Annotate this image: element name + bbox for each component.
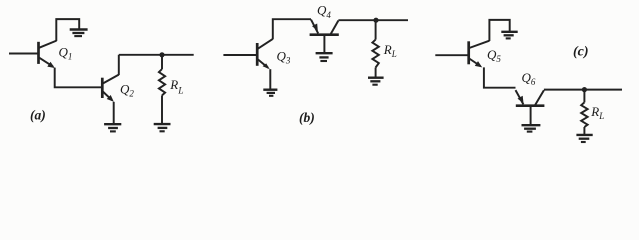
wire: Q3 emitter down to ground [269, 69, 271, 89]
transistor Q1 [39, 41, 57, 68]
svg-text:Q4: Q4 [317, 3, 331, 20]
wire: Q4 base down to ground [323, 35, 325, 52]
svg-text:Q2: Q2 [120, 82, 134, 99]
wire: Q5 collector up and over to ground [489, 20, 509, 41]
node: output junction (a) [159, 52, 164, 57]
svg-text:(a): (a) [30, 108, 46, 123]
svg-text:RL: RL [383, 42, 397, 59]
wire: Q2 emitter down to ground [113, 102, 115, 124]
ground (below Q2, circuit a) [104, 124, 121, 131]
wire: Q1 emitter down and right to Q2 base [55, 68, 102, 88]
wire: node down to resistor (c) [583, 90, 585, 103]
svg-text:Q1: Q1 [59, 45, 73, 62]
resistor RL (b) [372, 40, 378, 68]
svg-text:RL: RL [169, 77, 183, 97]
ground (below Q6, circuit c) [522, 125, 541, 131]
wire: Q5 base input [435, 54, 468, 56]
svg-text:(b): (b) [299, 110, 315, 125]
wire: Q3 base input [223, 54, 256, 56]
svg-text:Q3: Q3 [277, 49, 291, 66]
transistor Q3 [257, 39, 273, 69]
resistor RL (a) [159, 69, 165, 95]
svg-text:RL: RL [590, 104, 604, 121]
svg-text:Q5: Q5 [487, 47, 501, 64]
wire: Q1 collector up and over to ground [56, 19, 79, 41]
wire: Q5 emitter down and right to Q6 emitter [484, 67, 516, 87]
wire: node down to resistor (b) [375, 20, 377, 39]
wire: output rail (b) [338, 19, 408, 21]
transistor Q2 [102, 75, 119, 102]
ground (below Q3, circuit b) [263, 90, 277, 96]
wire: Q2 collector up to output rail [118, 55, 120, 75]
wire: resistor down to ground [161, 95, 163, 123]
node: output junction (c) [582, 87, 587, 92]
ground (below Q4, circuit b) [316, 53, 333, 61]
transistor Q5 [469, 41, 490, 68]
transistor Q4 [310, 20, 339, 35]
svg-text:(c): (c) [573, 45, 589, 60]
svg-text:Q6: Q6 [522, 70, 536, 87]
resistor RL (c) [581, 102, 587, 127]
ground (top, circuit a) [70, 30, 88, 37]
ground (below RL, circuit c) [576, 135, 592, 142]
transistor Q6 [516, 90, 545, 106]
wire: Q3 collector up and right to Q4 emitter [273, 19, 311, 39]
wire: Q6 base down to ground [530, 106, 532, 124]
wire: resistor down to ground (c) [583, 127, 585, 134]
ground (top, circuit c) [501, 32, 517, 39]
wire: resistor down to ground (b) [375, 68, 377, 77]
wire: output rail (c) [544, 89, 622, 91]
ground (below RL, circuit a) [154, 124, 171, 131]
node: output junction (b) [373, 18, 378, 23]
wire: Q1 base input [9, 53, 38, 55]
wire: node down to resistor [161, 55, 163, 69]
wire: output rail (a) [119, 54, 194, 56]
ground (below RL, circuit b) [368, 78, 384, 85]
